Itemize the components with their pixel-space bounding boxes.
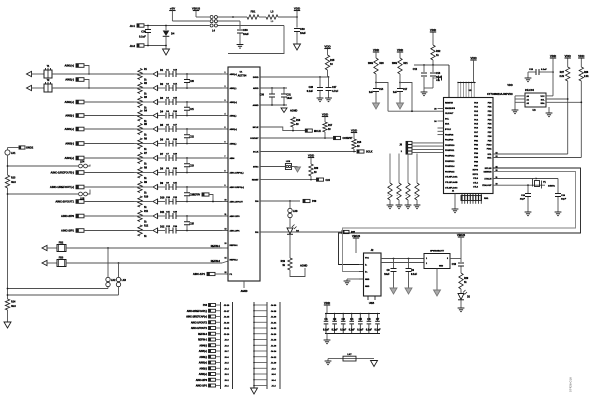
- ground below U2: [452, 208, 459, 210]
- ground below eeprom address pins: [512, 109, 519, 111]
- resistor R27 2.2k pullup: [566, 67, 570, 81]
- svg-text:AINC-1/VOUT2: AINC-1/VOUT2: [191, 321, 208, 324]
- clamp diode row 9: [153, 184, 158, 189]
- resistor R9: [138, 182, 142, 193]
- svg-text:AIN2(-): AIN2(-): [199, 367, 207, 370]
- svg-text:0.1uF: 0.1uF: [375, 329, 382, 331]
- svg-text:DPLUS: DPLUS: [485, 168, 492, 170]
- 3V3 rail: [414, 64, 449, 66]
- capacitor C39: [296, 17, 298, 28]
- input row AINC-1/REFOUT(-): [76, 171, 84, 175]
- header J4 row J4-13: [254, 316, 267, 318]
- wire LK2 to ground chain: [8, 288, 109, 290]
- svg-text:P33: P33: [203, 305, 208, 307]
- wire CONVST row: [260, 137, 334, 139]
- eeprom VCC wire: [546, 95, 553, 97]
- eeprom U3 24LC64 body: [525, 93, 546, 107]
- svg-text:AIN1(-): AIN1(-): [230, 87, 237, 90]
- eeprom SDA wire: [546, 101, 581, 103]
- power flag VDD cap array: [324, 304, 330, 306]
- svg-text:LK3: LK3: [122, 279, 127, 282]
- svg-text:C7: C7: [376, 317, 380, 321]
- capacitor C12 10uF: [423, 65, 425, 72]
- svg-text:AGND: AGND: [241, 290, 248, 293]
- resistor R5: [138, 124, 142, 135]
- U2 left stub RESET: [438, 108, 444, 110]
- svg-text:2: 2: [426, 263, 427, 265]
- svg-text:IFCLK: IFCLK: [445, 129, 451, 131]
- resistor R19 1k: [288, 258, 292, 270]
- link LK7 body: [343, 356, 356, 361]
- svg-text:1: 1: [426, 258, 427, 260]
- input row AIN1(+): [76, 64, 84, 68]
- input row AIN3(-): [76, 142, 84, 146]
- svg-text:PD6/FD14: PD6/FD14: [445, 165, 455, 168]
- svg-text:CONVST: CONVST: [343, 137, 354, 140]
- resistor R15 pullup: [325, 55, 329, 70]
- svg-text:0.1uF: 0.1uF: [541, 69, 547, 71]
- svg-text:R12: R12: [144, 225, 149, 227]
- svg-text:10uF: 10uF: [384, 274, 390, 276]
- pin 7 of U1: [222, 157, 228, 159]
- series caps row 10: [158, 201, 165, 203]
- svg-text:VBUS: VBUS: [192, 6, 200, 10]
- svg-text:VDD: VDD: [550, 54, 557, 58]
- ground below C18: [525, 211, 532, 213]
- wire P30 row: [260, 200, 300, 202]
- svg-text:R22: R22: [436, 50, 441, 53]
- power flag VDD at R15: [324, 48, 330, 50]
- svg-text:AIN1(+): AIN1(+): [230, 73, 238, 76]
- svg-text:SCLK: SCLK: [253, 152, 259, 154]
- wire RC tap col1: [376, 83, 388, 112]
- ground arrow right of link: [371, 361, 378, 367]
- ground arrow below C9: [405, 288, 412, 294]
- usb connector J1 body: [364, 253, 382, 296]
- svg-text:CTL2/FLAGC: CTL2/FLAGC: [445, 186, 458, 189]
- svg-text:C36: C36: [141, 30, 146, 34]
- svg-text:0.1uF: 0.1uF: [340, 329, 347, 331]
- capacitor C4 0.1uF: [351, 314, 353, 322]
- series caps row 3: [158, 101, 165, 103]
- svg-text:7: 7: [225, 156, 226, 158]
- capacitor C13: [432, 65, 434, 72]
- svg-text:AINC-1/RFO(+): AINC-1/RFO(+): [230, 186, 245, 189]
- input row AIN1(-): [76, 78, 84, 82]
- svg-text:2.2k: 2.2k: [560, 76, 565, 78]
- resistor R28 2.2k pullup: [579, 67, 583, 81]
- resistor network RN1: [461, 196, 482, 201]
- svg-text:VDD: VDD: [308, 153, 315, 157]
- svg-text:AINC-2/P0: AINC-2/P0: [196, 379, 208, 382]
- pin 9 of U1: [222, 186, 228, 188]
- resistor R1: [138, 69, 142, 80]
- svg-text:REFIN-1: REFIN-1: [211, 245, 221, 248]
- svg-text:14: 14: [225, 257, 227, 260]
- svg-text:J4-12: J4-12: [271, 356, 277, 359]
- svg-text:SCLK: SCLK: [366, 151, 373, 154]
- capacitor C19 22pF: [557, 179, 559, 194]
- connector J2-2: [137, 44, 144, 47]
- svg-text:REF5V: REF5V: [193, 195, 201, 197]
- wire J2-1 to choke: [144, 25, 210, 27]
- connector J2-1: [137, 24, 144, 27]
- ground arrow chain: [4, 322, 11, 328]
- row P1 stub: [207, 272, 215, 275]
- svg-text:13: 13: [225, 243, 227, 245]
- ground below C26: [317, 97, 324, 99]
- capacitor C38: [239, 21, 241, 29]
- svg-text:R19: R19: [281, 260, 286, 263]
- pin 12 of U1: [222, 230, 228, 232]
- pair capacitor C22: [186, 128, 188, 130]
- svg-text:R15: R15: [330, 59, 335, 62]
- ground below D4: [163, 49, 170, 55]
- series caps row 1: [158, 73, 165, 75]
- resistor R29 1k: [459, 273, 463, 289]
- svg-text:A1: A1: [527, 99, 529, 102]
- input row AIN3(+): [76, 127, 84, 131]
- svg-text:GND: GND: [439, 266, 444, 268]
- input row AINC-1/REFOUT(+): [76, 185, 84, 189]
- svg-text:C39: C39: [300, 28, 305, 31]
- wire SYNC row: [260, 166, 285, 168]
- pin 10 of U1: [222, 201, 228, 203]
- svg-text:REFIN-1: REFIN-1: [198, 340, 208, 342]
- svg-text:VDD: VDD: [578, 54, 585, 58]
- svg-text:REFIN-1: REFIN-1: [230, 245, 239, 247]
- svg-text:PD4/FD12: PD4/FD12: [445, 155, 455, 158]
- U2 VCC pin bundle: [457, 83, 459, 98]
- svg-text:J4-10: J4-10: [271, 362, 277, 365]
- pair capacitor C21: [186, 101, 188, 103]
- cap array ground: [326, 334, 328, 341]
- svg-text:XTALOUT: XTALOUT: [482, 184, 492, 187]
- svg-text:RESET#: RESET#: [445, 103, 454, 105]
- svg-text:AIN1(+): AIN1(+): [65, 64, 75, 68]
- stub RESET: [317, 178, 324, 181]
- series caps row 9: [158, 186, 165, 188]
- svg-text:0.1uF: 0.1uF: [366, 329, 373, 331]
- svg-text:AINC-1/REFOUT(+): AINC-1/REFOUT(+): [50, 185, 74, 189]
- resistor R12: [138, 225, 142, 236]
- power flag VBUS top: [193, 10, 199, 12]
- svg-text:C27: C27: [332, 86, 337, 89]
- input row AIN2(+): [76, 100, 84, 104]
- input row AINC-2/P0: [76, 214, 84, 218]
- resistor R24 2.2k: [398, 154, 400, 184]
- svg-text:AGND: AGND: [290, 110, 298, 113]
- svg-text:SDA: SDA: [445, 123, 450, 126]
- svg-text:VDD: VDD: [351, 128, 358, 132]
- capacitor C3 0.1uF: [342, 314, 344, 322]
- header J4 row J4-7: [254, 350, 267, 352]
- wire SDA net: [493, 157, 581, 159]
- resistor R22 1k top: [432, 32, 434, 45]
- wire XTALIN row: [493, 178, 558, 180]
- svg-text:C17: C17: [403, 89, 408, 91]
- capacitor C10 led: [460, 259, 462, 263]
- clamp diode row 1: [153, 71, 158, 76]
- stub CONVST: [334, 136, 341, 139]
- svg-text:RESET: RESET: [252, 180, 259, 182]
- svg-text:PD3/FD11: PD3/FD11: [445, 150, 455, 152]
- header J4 row J4-4: [254, 367, 267, 369]
- svg-text:0.1uF: 0.1uF: [323, 329, 330, 331]
- svg-text:PD5/FD13: PD5/FD13: [445, 161, 455, 163]
- svg-text:GND: GND: [365, 286, 370, 288]
- svg-text:49.9: 49.9: [11, 305, 16, 308]
- series caps row 12: [158, 230, 165, 232]
- wire return loop: [228, 26, 284, 54]
- resistor R21 100k: [398, 58, 402, 74]
- svg-text:0.1uF: 0.1uF: [349, 329, 356, 331]
- wire LED to AGND label: [290, 268, 305, 277]
- svg-text:AIN4(+): AIN4(+): [65, 156, 75, 160]
- svg-text:PD0/FD8: PD0/FD8: [445, 134, 454, 136]
- svg-text:DMINUS: DMINUS: [484, 172, 493, 174]
- svg-text:AIN3(-): AIN3(-): [230, 143, 237, 146]
- svg-text:R21: R21: [403, 63, 408, 65]
- test point circle: [5, 150, 10, 155]
- resistor R7: [138, 153, 142, 164]
- svg-text:C21: C21: [190, 108, 195, 111]
- input row REFIN-2: [42, 260, 47, 265]
- svg-text:REFIN-2: REFIN-2: [230, 260, 239, 262]
- svg-text:C5: C5: [359, 317, 363, 321]
- wire choke bottom output: [218, 25, 285, 27]
- stub P31: [342, 230, 349, 233]
- jumper tap row 10: [8, 193, 79, 195]
- connector GND2: [19, 146, 25, 149]
- ground below C12: [423, 88, 425, 92]
- header J4 row J4-6: [254, 356, 267, 358]
- svg-text:J3-17: J3-17: [224, 311, 230, 313]
- svg-text:VDD: VDD: [324, 301, 331, 305]
- svg-text:C22: C22: [190, 135, 195, 138]
- capacitor C17: [399, 83, 401, 89]
- svg-text:RDY0: RDY0: [473, 170, 479, 172]
- clamp connector row 1: [27, 71, 32, 76]
- wire USB DPLUS loop: [339, 168, 581, 265]
- svg-text:R28: R28: [584, 72, 589, 74]
- stub SCLK: [357, 150, 364, 153]
- svg-text:VBUS: VBUS: [457, 233, 465, 237]
- power flag VDD C15: [550, 57, 556, 59]
- ground below R23: [389, 200, 391, 205]
- svg-text:AIN2(+): AIN2(+): [199, 373, 207, 376]
- svg-text:R30: R30: [314, 168, 319, 170]
- svg-text:AIN3(-): AIN3(-): [199, 356, 207, 359]
- svg-text:R29: R29: [464, 278, 469, 280]
- resistor R23 2.2k: [389, 154, 391, 184]
- svg-text:VDD: VDD: [294, 6, 301, 10]
- svg-text:AINC-2/VOUT: AINC-2/VOUT: [230, 201, 244, 204]
- svg-text:VDD: VDD: [322, 112, 329, 116]
- svg-text:C13: C13: [436, 73, 441, 75]
- usb left pin stubs: [355, 253, 357, 258]
- capacitor C11 at rail: [438, 76, 440, 81]
- ground arrow below C39: [294, 44, 301, 50]
- clamp diode row 4: [153, 113, 158, 118]
- svg-text:VDD: VDD: [430, 28, 437, 32]
- ground below C19: [555, 211, 562, 213]
- svg-text:R11: R11: [144, 211, 149, 213]
- svg-text:GND: GND: [365, 279, 370, 281]
- wire RESET row: [260, 179, 317, 181]
- input row AIN4(+): [76, 156, 84, 160]
- resistor R10: [138, 196, 142, 207]
- svg-text:SYNC: SYNC: [253, 167, 259, 169]
- capacitor C30: [271, 88, 273, 94]
- wire choke mid output: [218, 20, 241, 22]
- svg-text:2.2k: 2.2k: [584, 76, 589, 78]
- clamp diode row 11: [153, 213, 158, 218]
- svg-text:C23: C23: [190, 164, 195, 167]
- power flag +5V (left): [169, 10, 175, 12]
- svg-text:0.1uF: 0.1uF: [332, 329, 339, 331]
- svg-text:10uF: 10uF: [287, 97, 293, 100]
- clamp diode row 10: [153, 199, 158, 204]
- ground below eeprom: [546, 112, 553, 114]
- svg-text:44: 44: [452, 190, 454, 193]
- wire RC tap col2: [400, 83, 412, 112]
- usb gnd pin wire: [347, 278, 359, 280]
- svg-text:C4: C4: [350, 317, 354, 321]
- svg-text:AIN4(+): AIN4(+): [199, 350, 207, 353]
- shield link wire: [328, 358, 374, 360]
- svg-text:AIN2(-): AIN2(-): [230, 115, 237, 118]
- svg-text:100k: 100k: [368, 63, 374, 65]
- svg-text:DVDD: DVDD: [253, 77, 259, 79]
- svg-text:C2: C2: [333, 317, 337, 321]
- clamp diode row 7: [153, 155, 158, 160]
- rail bottom tie: [424, 87, 433, 89]
- usb shield stubs: [367, 296, 369, 300]
- svg-text:P30: P30: [312, 200, 317, 203]
- jumper LK2 vertical: [107, 248, 109, 277]
- eeprom address pins to ground: [515, 95, 525, 97]
- wire 3V3 to U2 VCC: [448, 65, 450, 98]
- diode D4: [165, 26, 167, 31]
- svg-text:VDD: VDD: [397, 48, 404, 52]
- U1 bottom stub AGND: [243, 281, 245, 288]
- AGND symbol: [281, 108, 287, 113]
- svg-text:VDD: VDD: [373, 48, 380, 52]
- wire D rail to TVS: [381, 262, 424, 264]
- input row AINC-2/VOUT1: [76, 200, 84, 204]
- svg-text:J2-2: J2-2: [130, 44, 136, 48]
- ground arrow below C8: [390, 288, 397, 294]
- header J4 row J4-15: [254, 304, 267, 306]
- svg-text:CY7C68013A-56PVXC: CY7C68013A-56PVXC: [487, 93, 513, 96]
- pair capacitor C24: [186, 186, 188, 188]
- svg-text:49.9: 49.9: [11, 181, 16, 184]
- svg-text:AIN3(+): AIN3(+): [199, 362, 207, 365]
- wire +5V into choke: [172, 20, 209, 22]
- header J4 left bus: [253, 302, 255, 388]
- header J4 row J4-9: [254, 339, 267, 341]
- svg-text:10uF: 10uF: [243, 33, 249, 36]
- input row REFIN-1: [42, 245, 47, 250]
- ground below R25: [407, 200, 409, 205]
- capacitor C7 0.1uF: [377, 314, 379, 322]
- svg-text:C26: C26: [309, 86, 314, 89]
- power flag VDD R22: [430, 31, 436, 33]
- U2 ground pin chain: [454, 194, 456, 210]
- series caps row 6: [158, 143, 165, 145]
- capacitor C2 0.1uF: [334, 314, 336, 322]
- ferrite bead FB1: [247, 15, 259, 19]
- svg-text:J3-13: J3-13: [224, 322, 230, 324]
- wire USB DMINUS loop: [343, 172, 576, 272]
- svg-text:REFIN-2: REFIN-2: [198, 334, 208, 336]
- header J4 row J4-1: [254, 385, 267, 387]
- svg-text:24LC64: 24LC64: [525, 89, 535, 92]
- svg-text:9: 9: [225, 185, 226, 187]
- svg-text:CONVST: CONVST: [250, 138, 259, 140]
- svg-text:LK6: LK6: [293, 210, 298, 213]
- eeprom SCL wire: [546, 98, 568, 100]
- svg-text:AIN2(+): AIN2(+): [230, 101, 238, 104]
- svg-text:6: 6: [225, 142, 226, 144]
- svg-text:AINC-1/RFO(-): AINC-1/RFO(-): [230, 172, 244, 175]
- svg-text:D10: D10: [160, 196, 165, 199]
- svg-text:GND2: GND2: [26, 146, 34, 150]
- svg-text:C12: C12: [413, 69, 418, 71]
- pin 2 of U1: [222, 87, 228, 89]
- svg-text:J3-10: J3-10: [224, 334, 230, 336]
- svg-text:0.1uF: 0.1uF: [307, 90, 314, 93]
- series caps row 4: [158, 115, 165, 117]
- jumper LK3 vertical: [118, 263, 120, 277]
- pin 4 of U1: [222, 115, 228, 117]
- capacitor C26: [319, 77, 321, 87]
- stub REFOUT between rows: [202, 193, 209, 196]
- jumper LK6: [289, 201, 291, 208]
- wire VBUS into choke: [196, 16, 210, 18]
- ground below R24: [398, 200, 400, 205]
- wire SCLK row: [260, 151, 356, 153]
- cap array bottom rail: [325, 333, 380, 335]
- svg-text:J2-1: J2-1: [130, 24, 136, 28]
- wire LK3 to ground chain: [8, 294, 119, 296]
- header J4 row J4-2: [254, 379, 267, 381]
- svg-text:R16: R16: [296, 120, 301, 122]
- svg-text:VCC: VCC: [365, 258, 370, 260]
- common-mode choke L4: [210, 16, 213, 19]
- svg-text:15: 15: [225, 272, 227, 274]
- svg-text:AINC-2/P0: AINC-2/P0: [61, 214, 74, 218]
- svg-text:C30: C30: [260, 94, 265, 97]
- tvs U4 SP0503 body: [424, 254, 450, 269]
- wire XTALOUT row: [493, 184, 545, 186]
- resistor R30 pullup: [308, 157, 314, 159]
- cap array top rail: [325, 313, 380, 315]
- clamp diode row 5: [153, 126, 158, 131]
- wire AVDD rail: [260, 87, 287, 89]
- ground below R26: [416, 200, 418, 205]
- header J4 row J4-8: [254, 344, 267, 346]
- capacitor C31: [283, 88, 285, 94]
- svg-text:R10: R10: [144, 196, 149, 198]
- svg-text:R27: R27: [560, 72, 565, 74]
- svg-text:A0: A0: [527, 95, 529, 98]
- svg-text:22pF: 22pF: [561, 199, 567, 201]
- svg-text:AINC-1/REFOUT(-): AINC-1/REFOUT(-): [51, 171, 75, 175]
- pair capacitor C20: [186, 73, 188, 75]
- power flag VBUS USB: [353, 237, 359, 239]
